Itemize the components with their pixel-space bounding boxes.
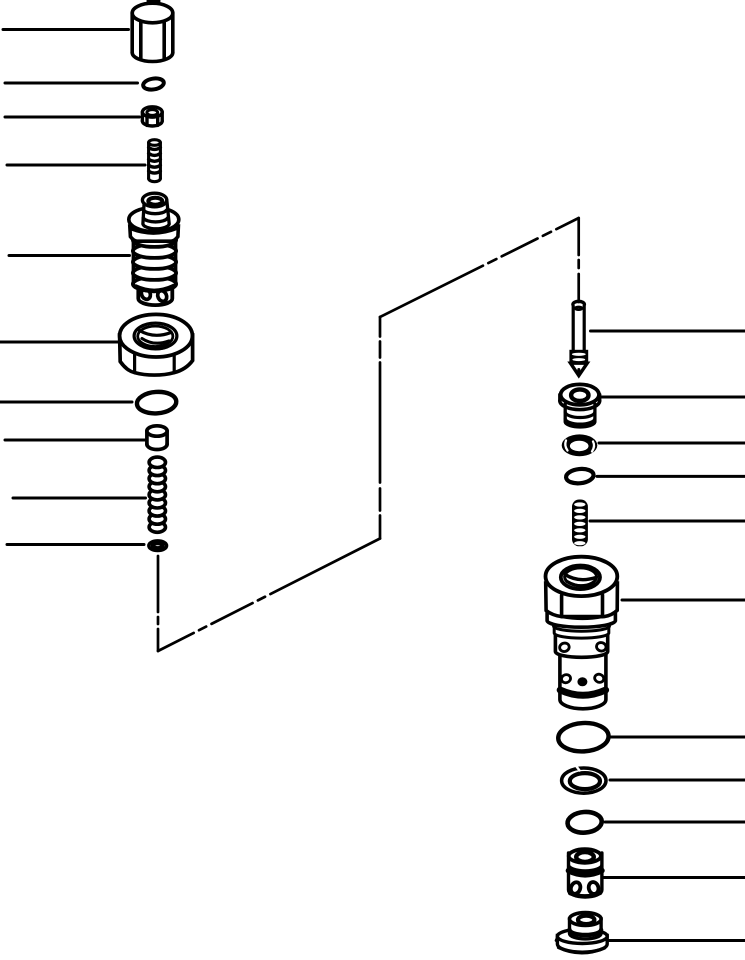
spring right (part 15) [572,500,588,547]
phantom segment below washer [157,556,160,651]
leader R3 o-ring thick [599,442,745,445]
leader L5 valve assembly [9,254,130,257]
washer (part 10) [149,541,167,551]
hex nut (part 3) [142,107,162,126]
small o-ring (part 19) [567,811,603,834]
leader R2 seat [601,396,745,399]
leader R1 needle [591,330,745,333]
pressure valve assembly (part 5) [129,193,179,305]
o-ring (part 2) [142,77,164,91]
leader L8 piston [5,439,145,442]
leader R7 large o-ring [611,736,745,739]
PHANTOM CENTER LINE [158,218,579,651]
leader L7 o-ring [0,401,132,404]
leader R5 spring right [590,520,745,523]
LEADERS-LEFT [0,30,146,545]
phantom diagonal lower [158,539,380,652]
valve seat (part 12) [560,384,600,427]
LEADERS-RIGHT [590,331,745,941]
backup ring (part 18) [562,767,606,794]
leader L4 set screw [7,164,145,167]
leader R6 main body [622,599,745,602]
large o-ring (part 17) [558,722,610,753]
leader L6 hex flange nut [0,341,119,344]
o-ring (part 7) [136,391,177,415]
phantom vertical middle [379,317,382,539]
leader L3 nut [5,116,140,119]
leader L1 cap [3,28,129,31]
piston (part 8) [147,426,167,450]
leader R11 plug [609,939,745,942]
leader R10 spool [602,876,745,879]
plug (part 21) [556,913,607,953]
leader L10 washer [7,543,144,546]
spring (part 9) [149,457,165,532]
cap (part 1) [132,1,173,62]
phantom vertical above needle [577,218,580,302]
leader R4 o-ring thin [597,475,745,478]
phantom diagonal upper [380,218,579,317]
main valve body (part 16) [546,557,618,709]
leader R8 backup ring [610,779,745,782]
o-ring thin (part 14) [565,468,594,485]
spool (part 20) [569,849,602,897]
leader L2 o-ring [5,82,138,85]
set screw (part 4) [149,140,161,182]
leader L9 spring [13,497,146,500]
needle valve (part 11) [569,301,588,375]
o-ring thick (part 13) [562,434,598,456]
hex flange nut (part 6) [120,314,193,375]
leader R9 small o-ring [605,821,745,824]
